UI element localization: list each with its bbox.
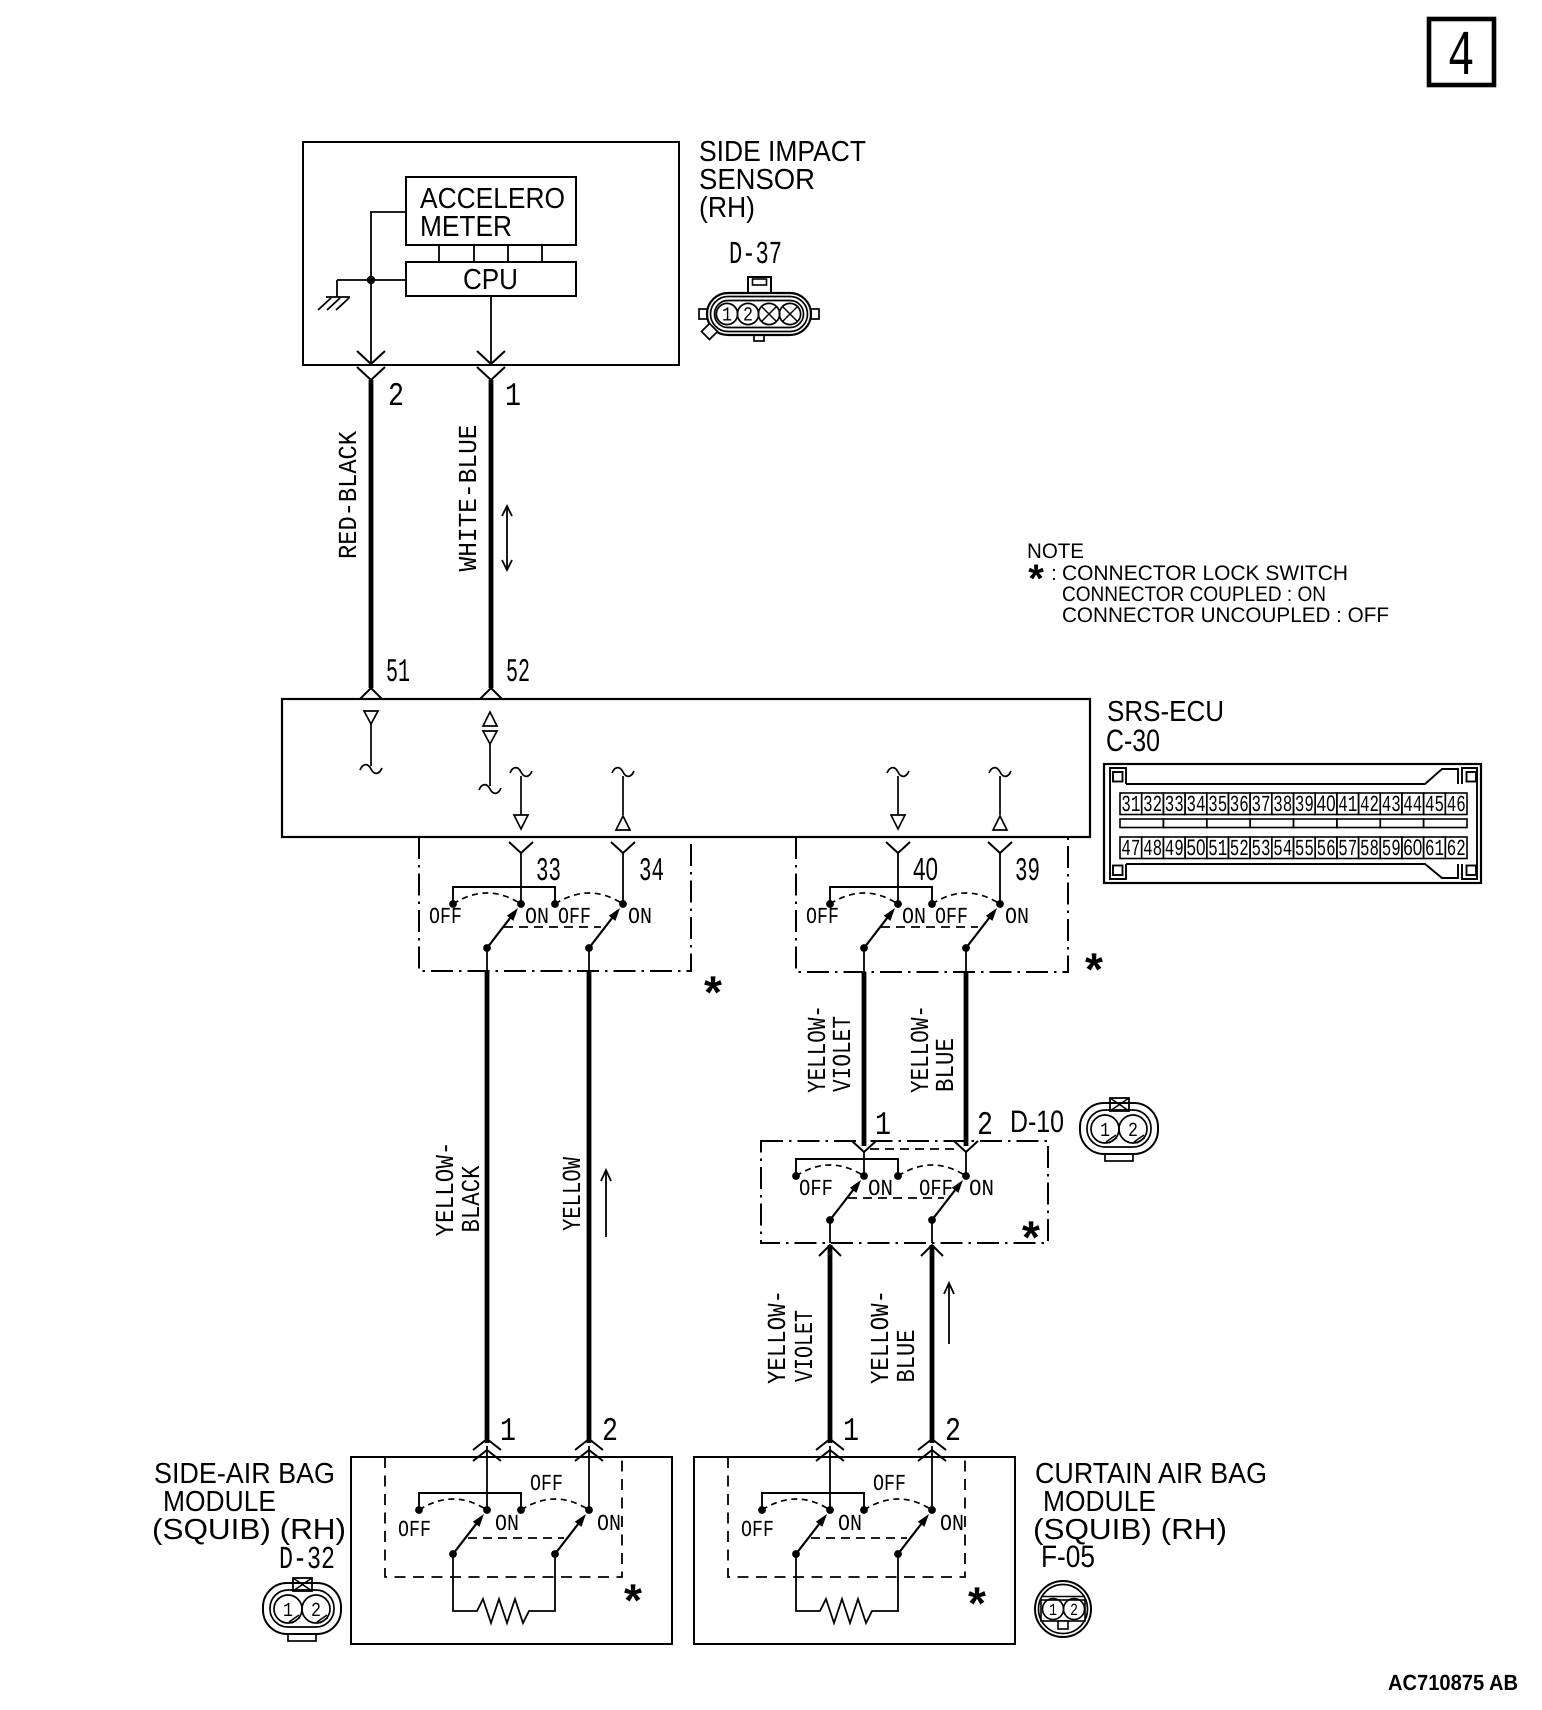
svg-text:*: * (1085, 943, 1103, 995)
svg-text:CONNECTOR COUPLED : ON: CONNECTOR COUPLED : ON (1062, 583, 1326, 606)
OFF/ON labels D-10 (799, 1176, 994, 1202)
svg-text:OFF: OFF (799, 1176, 833, 1202)
side-air bag title (152, 1458, 346, 1546)
junction node (367, 276, 375, 284)
svg-text:40: 40 (1317, 791, 1336, 816)
wire YELLOW-BLACK (485, 971, 490, 1443)
OFF/ON labels curtain (741, 1471, 964, 1543)
svg-text:43: 43 (1382, 792, 1401, 818)
wire YELLOW-BLUE upper (964, 972, 969, 1146)
svg-text:OFF: OFF (873, 1471, 906, 1497)
svg-text:1: 1 (505, 378, 521, 415)
svg-text:2: 2 (1128, 1120, 1138, 1143)
stem below switch 864 (863, 948, 865, 972)
svg-text:1: 1 (1100, 1120, 1110, 1143)
svg-text:2: 2 (602, 1413, 618, 1450)
switch pair curtain air bag squib (758, 1493, 936, 1558)
svg-text:VIOLET: VIOLET (828, 1016, 858, 1092)
OFF/ON labels 33/34 (429, 904, 652, 930)
svg-text:2: 2 (388, 378, 404, 415)
ECU titles (1106, 696, 1224, 758)
svg-text:1: 1 (722, 305, 732, 328)
svg-text:RED-BLACK: RED-BLACK (334, 431, 364, 559)
wire YELLOW (587, 971, 592, 1443)
svg-text:1: 1 (283, 1600, 293, 1623)
curtain air bag dashed switch area (728, 1457, 965, 1577)
C-30 pin row 31-46 (1120, 791, 1467, 818)
ECU internal symbol pin 40 (887, 768, 909, 829)
svg-text:VIOLET: VIOLET (790, 1310, 820, 1382)
svg-text:51: 51 (1208, 836, 1227, 862)
connector D-32 graphic (263, 1578, 341, 1641)
svg-text:*: * (704, 966, 722, 1018)
svg-text:ON: ON (969, 1176, 994, 1202)
CPU block (406, 262, 576, 296)
svg-text:2: 2 (743, 305, 753, 328)
svg-text:46: 46 (1447, 792, 1466, 818)
stem into switch, pin col 521 (509, 842, 533, 853)
svg-text:40: 40 (913, 851, 938, 887)
accelerometer-cpu connection ticks (439, 245, 542, 262)
dashed segment side-air bag (468, 1537, 564, 1539)
svg-text:1: 1 (500, 1413, 516, 1450)
svg-text:*: * (1028, 557, 1044, 601)
C-30 pin row 47-62 (1120, 835, 1467, 862)
svg-text:ON: ON (597, 1511, 621, 1537)
switch pair 40/39 (826, 887, 1004, 952)
svg-text:OFF: OFF (935, 904, 968, 930)
note text (1027, 540, 1389, 627)
svg-text:50: 50 (1187, 835, 1206, 860)
connector lock switch box (33/34) (419, 837, 691, 971)
svg-text:CPU: CPU (463, 264, 518, 296)
svg-text:F-05: F-05 (1041, 1539, 1095, 1574)
svg-text:ON: ON (868, 1176, 893, 1202)
svg-text:37: 37 (1252, 792, 1271, 818)
svg-text:2: 2 (311, 1600, 321, 1623)
svg-text:D-37: D-37 (729, 236, 782, 273)
entry marks D-10 (852, 1141, 876, 1152)
switch pair D-10 (792, 1159, 970, 1224)
wire YELLOW-VIOLET upper (862, 972, 867, 1146)
module entry marks x=932 (918, 1439, 946, 1461)
SRS-ECU box (282, 699, 1090, 837)
squib resistor curtain (796, 1553, 898, 1623)
wire YELLOW-VIOLET lower (828, 1245, 833, 1443)
svg-text:2: 2 (945, 1413, 961, 1450)
label YELLOW-BLUE lower (866, 1290, 922, 1384)
svg-text:34: 34 (639, 853, 664, 890)
svg-text:OFF: OFF (806, 904, 839, 930)
label YELLOW-VIOLET upper (803, 1005, 858, 1093)
stem below switch 966 (965, 948, 967, 972)
stem into switch, pin col 898 (886, 842, 910, 853)
stem into switch, pin col 623 (611, 842, 635, 853)
svg-text:OFF: OFF (919, 1176, 953, 1202)
svg-text:YELLOW: YELLOW (558, 1157, 588, 1231)
svg-text:35: 35 (1208, 792, 1227, 818)
curtain title (1033, 1458, 1267, 1546)
svg-text::: : (1051, 562, 1057, 585)
arrow up beside YELLOW (601, 1170, 611, 1237)
svg-text:BLUE: BLUE (892, 1330, 922, 1383)
switch pair 33/34 (449, 887, 627, 952)
svg-text:WHITE-BLUE: WHITE-BLUE (454, 425, 484, 572)
svg-text:52: 52 (506, 654, 530, 691)
svg-text:C-30: C-30 (1106, 723, 1160, 758)
side impact sensor box D-37 (303, 142, 679, 365)
accelerometer block (406, 177, 576, 245)
dashed segment curtain (811, 1537, 907, 1539)
label YELLOW-BLACK (431, 1142, 487, 1237)
ECU internal symbol pin 34 (612, 768, 634, 830)
svg-text:OFF: OFF (398, 1517, 431, 1543)
svg-text:59: 59 (1382, 836, 1401, 862)
ECU internal symbol pin 51 (360, 711, 382, 773)
svg-text:32: 32 (1143, 792, 1162, 818)
svg-text:CONNECTOR LOCK SWITCH: CONNECTOR LOCK SWITCH (1062, 562, 1348, 585)
svg-text:31: 31 (1121, 792, 1140, 818)
svg-text:ON: ON (495, 1511, 519, 1537)
side-air bag dashed switch area (385, 1457, 622, 1577)
label YELLOW-BLUE upper (906, 1005, 961, 1093)
arrow up beside YELLOW-BLUE (944, 1283, 954, 1344)
ground (318, 280, 350, 310)
svg-text:BLUE: BLUE (931, 1038, 961, 1092)
svg-text:62: 62 (1447, 836, 1466, 862)
sensor exit marks (357, 351, 385, 380)
dashed segments D-10 (870, 1148, 960, 1150)
svg-text:YELLOW-: YELLOW- (763, 1290, 793, 1384)
svg-text:4: 4 (1448, 22, 1475, 94)
dashed segment 33/34 (504, 926, 601, 928)
double arrow (502, 506, 512, 570)
svg-text:33: 33 (1165, 792, 1184, 818)
wire RED-BLACK pin2 to 51 (369, 380, 374, 688)
svg-text:54: 54 (1273, 836, 1292, 862)
D-10 box (761, 1141, 1048, 1243)
svg-text:56: 56 (1317, 836, 1336, 862)
svg-text:ON: ON (902, 904, 926, 930)
svg-text:ON: ON (1005, 904, 1029, 930)
module entry marks x=589 (575, 1439, 603, 1461)
svg-text:ON: ON (838, 1511, 862, 1537)
svg-text:61: 61 (1425, 836, 1444, 862)
svg-text:D-32: D-32 (279, 1541, 335, 1578)
svg-text:ON: ON (628, 904, 652, 930)
svg-text:OFF: OFF (558, 904, 591, 930)
squib resistor side-air bag (453, 1553, 555, 1623)
svg-text:D-10: D-10 (1010, 1104, 1064, 1139)
connector lock switch box (40/39) (796, 837, 1068, 972)
internal wire cpu to accelerometer (337, 212, 406, 280)
label YELLOW-VIOLET lower (763, 1290, 820, 1384)
svg-text:41: 41 (1338, 792, 1357, 818)
svg-text:39: 39 (1015, 853, 1040, 890)
stems below D-10 switches (829, 1220, 831, 1243)
svg-text:1: 1 (1049, 1602, 1057, 1621)
dashed segment 40/39 (881, 926, 978, 928)
svg-text:ON: ON (940, 1511, 964, 1537)
sensor title (699, 136, 866, 224)
svg-text:2: 2 (977, 1107, 993, 1144)
svg-text:OFF: OFF (741, 1517, 774, 1543)
svg-text:BLACK: BLACK (457, 1165, 487, 1232)
svg-text:*: * (1022, 1211, 1040, 1263)
connector D-37 graphic (699, 277, 819, 341)
svg-text:55: 55 (1295, 836, 1314, 862)
svg-text:METER: METER (420, 211, 512, 243)
ECU internal symbol pin 39 (989, 768, 1011, 830)
svg-text:(RH): (RH) (699, 192, 755, 224)
exit marks below D-10 (819, 1245, 841, 1256)
connector C-30 graphic (1104, 764, 1481, 883)
stem below switch 487 (486, 948, 488, 971)
svg-text:38: 38 (1273, 792, 1292, 818)
svg-text:49: 49 (1165, 836, 1184, 862)
svg-text:CONNECTOR UNCOUPLED : OFF: CONNECTOR UNCOUPLED : OFF (1062, 604, 1389, 627)
svg-text:39: 39 (1295, 792, 1314, 818)
connector D-10 graphic (1080, 1098, 1158, 1161)
stem below switch 589 (588, 948, 590, 971)
svg-text:AC710875 AB: AC710875 AB (1388, 1670, 1518, 1695)
wire junction to sensor pin 2 (370, 280, 372, 364)
curtain air bag module box (694, 1457, 1015, 1644)
svg-text:36: 36 (1230, 792, 1249, 818)
wire YELLOW-BLUE lower (930, 1245, 935, 1443)
svg-text:45: 45 (1425, 792, 1444, 818)
wire WHITE-BLUE pin1 to 52 (489, 380, 494, 688)
OFF/ON labels side-air bag (398, 1471, 621, 1543)
module entry marks x=830 (816, 1439, 844, 1461)
module entry marks x=487 (473, 1439, 501, 1461)
svg-text:*: * (968, 1577, 986, 1629)
stem into switch, pin col 1000 (988, 842, 1012, 853)
svg-text:47: 47 (1121, 836, 1140, 862)
svg-text:51: 51 (386, 654, 410, 691)
svg-text:42: 42 (1360, 792, 1379, 818)
svg-text:58: 58 (1360, 836, 1379, 862)
connector F-05 graphic (1035, 1581, 1091, 1637)
svg-text:57: 57 (1338, 836, 1357, 862)
svg-text:ON: ON (525, 904, 549, 930)
svg-text:OFF: OFF (429, 904, 462, 930)
svg-text:60: 60 (1403, 835, 1422, 860)
svg-text:52: 52 (1230, 836, 1249, 862)
wire cpu to sensor pin 1 (490, 296, 492, 364)
svg-text:1: 1 (843, 1413, 859, 1450)
svg-text:33: 33 (536, 853, 561, 890)
switch pair side-air bag squib (415, 1493, 593, 1558)
svg-text:1: 1 (875, 1107, 891, 1144)
svg-text:OFF: OFF (530, 1471, 563, 1497)
ECU internal symbol pin 33 (510, 768, 532, 829)
svg-text:2: 2 (1070, 1602, 1078, 1621)
svg-text:48: 48 (1143, 836, 1162, 862)
page number box 4 (1429, 19, 1494, 94)
OFF/ON labels 40/39 (806, 904, 1029, 930)
svg-text:34: 34 (1187, 792, 1206, 818)
svg-text:44: 44 (1403, 792, 1422, 818)
side-air bag module box (351, 1457, 672, 1644)
svg-text:53: 53 (1252, 836, 1271, 862)
entry marks at ECU (360, 688, 382, 699)
svg-text:*: * (624, 1574, 642, 1626)
ECU internal symbol pin 52 (479, 712, 501, 793)
